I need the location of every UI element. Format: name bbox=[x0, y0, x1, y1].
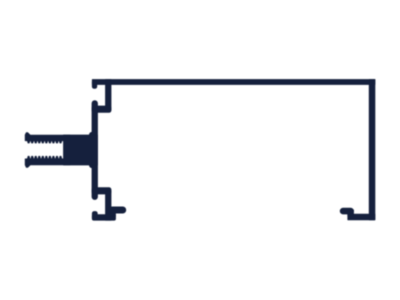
top toothed prong with barb tip bbox=[25, 133, 70, 143]
bottom-right foot bar bbox=[348, 214, 375, 220]
top-left gasket nub (hanging below top bar) bbox=[92, 80, 97, 88]
right wall bbox=[369, 80, 375, 220]
top flange bar bbox=[92, 80, 375, 85]
left wall line (capsule ends) bbox=[92, 101, 98, 200]
fillet block-to-wall top bbox=[89, 132, 92, 135]
bottom-right stub lip (rounded cap) bbox=[340, 208, 353, 214]
upper step bar bbox=[92, 106, 111, 112]
bottom-left step (foot to stub) bbox=[110, 210, 116, 216]
bottom-left stub lip (rounded cap) bbox=[109, 207, 126, 213]
lower step bar bbox=[92, 188, 111, 194]
fillet block-to-wall bottom bbox=[89, 165, 92, 168]
bottom-left gasket nub (rising above foot) bbox=[92, 212, 97, 221]
lower web bar (central vertical, bottom) bbox=[106, 191, 112, 220]
bottom toothed prong with barb tip bbox=[25, 156, 70, 167]
bottom-left foot bar bbox=[92, 215, 115, 221]
screw-boss block bbox=[64, 135, 98, 165]
upper web line (central thin vertical, top) bbox=[106, 80, 112, 111]
bottom-right step (foot to stub) bbox=[348, 210, 354, 216]
